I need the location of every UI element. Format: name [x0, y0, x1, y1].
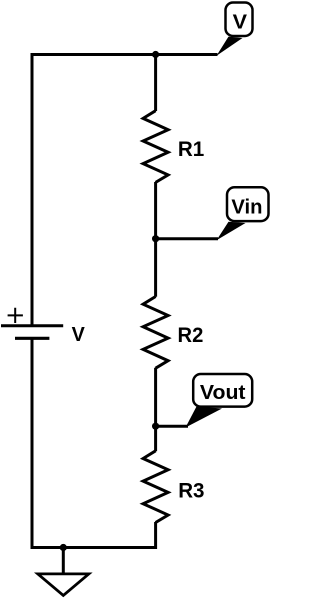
resistor R2	[143, 297, 168, 369]
junction: node Vin	[152, 235, 159, 242]
wire: Vout tap	[156, 425, 188, 428]
voltage source V: negative plate	[15, 337, 49, 340]
wire: top rail from left branch to net flag V	[32, 53, 218, 56]
wire: Vin tap	[156, 237, 218, 240]
resistor R1	[143, 111, 168, 183]
resistor R3	[143, 451, 168, 523]
svg-text:R2: R2	[178, 323, 204, 347]
wire: left branch vertical (battery positive lead)	[31, 53, 34, 326]
wire: R3 bottom lead	[154, 522, 157, 549]
net flag Vout	[186, 374, 253, 428]
net flag V	[217, 3, 253, 56]
svg-text:V: V	[72, 323, 85, 346]
svg-text:V: V	[233, 12, 248, 34]
ground symbol	[38, 548, 89, 596]
wire: R2 to R3 through node Vout	[154, 368, 157, 451]
wire: R1 top lead	[154, 55, 157, 112]
svg-text:R3: R3	[178, 479, 204, 503]
wire: bottom rail	[31, 546, 156, 549]
svg-text:Vin: Vin	[231, 196, 262, 219]
wire: left branch bottom (battery negative lead)	[31, 338, 34, 549]
voltage source V: plus polarity mark	[8, 308, 23, 323]
net flag Vin	[217, 187, 269, 240]
junction: node Vout	[152, 423, 159, 430]
junction: ground node on bottom rail	[60, 544, 67, 551]
wire: R1 to R2 through node Vin	[154, 182, 157, 297]
svg-text:R1: R1	[178, 137, 204, 161]
voltage source V: positive plate	[1, 324, 63, 327]
junction: node where R1 joins top rail	[152, 51, 159, 58]
svg-text:Vout: Vout	[200, 382, 246, 404]
